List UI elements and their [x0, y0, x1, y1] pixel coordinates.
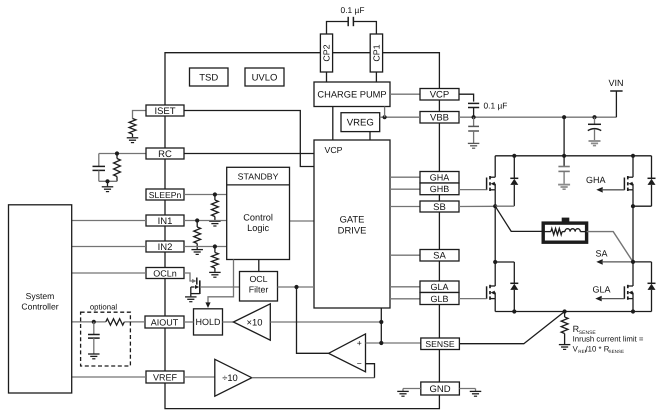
- svg-text:CP2: CP2: [322, 44, 332, 61]
- node OCL comparator tap: [294, 285, 298, 289]
- wire CP2 to charge pump: [326, 72, 328, 82]
- node phase A diode: [631, 204, 635, 208]
- svg-text:Controller: Controller: [21, 302, 58, 312]
- pin box SA: [420, 250, 459, 262]
- wire controller to IN1: [72, 220, 146, 222]
- transistor Q-GHB high side B: [487, 176, 496, 191]
- diode D1 high B: [510, 156, 518, 206]
- ground VIN bulk cap: [589, 141, 601, 146]
- diode D2 low B: [510, 262, 518, 312]
- wire RC bottom: [99, 180, 117, 182]
- wire right rail to bottom: [632, 299, 634, 312]
- node RC ground junction: [105, 179, 109, 183]
- block TSD: [190, 68, 229, 86]
- wire ISET-top to VCP-top: [165, 53, 439, 105]
- label VIN: [608, 78, 623, 88]
- svg-text:Inrush current limit =: Inrush current limit =: [573, 334, 644, 343]
- svg-text:VCP: VCP: [324, 145, 342, 155]
- ground optional cap: [88, 354, 100, 359]
- svg-text:GHA: GHA: [586, 175, 606, 185]
- resistor R-IN2: [211, 247, 218, 272]
- wire bridge top rail: [495, 155, 651, 157]
- ground GND right: [470, 389, 482, 397]
- wire GLA gate arrow: [595, 296, 624, 302]
- pin box RC: [146, 148, 184, 160]
- capacitor bridge bypass: [558, 156, 569, 184]
- wire phase B to diode: [495, 205, 514, 207]
- svg-text:SLEEPn: SLEEPn: [149, 190, 182, 200]
- svg-text:HOLD: HOLD: [195, 317, 221, 327]
- wire div10 output: [252, 377, 375, 379]
- wire left rail to phase: [494, 190, 496, 206]
- svg-text:ISET: ISET: [154, 106, 175, 117]
- op-amp div10: [215, 359, 252, 396]
- pin box GND: [421, 382, 460, 395]
- pin box IN2: [146, 241, 184, 253]
- node RC junction: [115, 151, 119, 155]
- diode D3 high A: [648, 156, 656, 206]
- pin box OCLn: [146, 268, 184, 279]
- block UVLO: [245, 68, 284, 86]
- svg-text:CHARGE PUMP: CHARGE PUMP: [317, 90, 386, 100]
- ground SLEEPn resistor: [209, 221, 221, 226]
- svg-text:−: −: [357, 359, 362, 369]
- wire controller to VREF: [72, 376, 146, 378]
- ground GND left: [397, 389, 409, 397]
- transistor Q-OCL: [191, 278, 200, 297]
- pin box VREF: [146, 371, 184, 383]
- resistor R-SLEEPn: [211, 195, 218, 221]
- svg-text:/10 * R: /10 * R: [586, 344, 610, 353]
- svg-text:×10: ×10: [247, 316, 263, 327]
- block VREG: [341, 113, 380, 132]
- node IN2 pulldown: [213, 244, 217, 248]
- node top rail left diode: [512, 154, 516, 158]
- node IN1 pulldown: [195, 218, 199, 222]
- wire GHA gate arrow: [596, 187, 624, 193]
- wire gate drive to GLA: [390, 286, 420, 288]
- wire left rail mid: [494, 206, 496, 262]
- label 0.1 uF pump: [341, 5, 365, 15]
- transistor Q-GLA low side A: [624, 285, 633, 300]
- wire VBB to bridge top rail: [563, 117, 565, 156]
- capacitor VBB bypass: [468, 117, 479, 143]
- svg-text:OCL: OCL: [249, 274, 267, 284]
- wire motor to phase A: [587, 232, 633, 262]
- pin box SENSE: [421, 338, 460, 350]
- label inrush line1: [573, 334, 644, 343]
- svg-text:UVLO: UVLO: [252, 73, 278, 84]
- node left lower diode tap: [493, 260, 497, 264]
- ground IN2 resistor: [209, 272, 221, 277]
- svg-text:+: +: [357, 338, 362, 348]
- node SLEEPn pulldown: [213, 192, 217, 196]
- label optional: [90, 303, 118, 312]
- label GHA arrow: [586, 175, 606, 185]
- ground Q-OCL source: [185, 297, 197, 302]
- svg-text:AIOUT: AIOUT: [151, 318, 179, 328]
- block HOLD: [194, 309, 223, 335]
- transistor Q-GLB low side B: [487, 285, 496, 300]
- op-amp x10: [233, 304, 270, 340]
- node charge pump VBB tap: [383, 107, 387, 120]
- pin box GHA: [420, 172, 459, 184]
- capacitor VIN bulk: [588, 117, 601, 140]
- wire gate drive to GLB: [390, 298, 420, 300]
- svg-text:IN1: IN1: [158, 216, 173, 227]
- wire feedback to comparator minus: [366, 364, 375, 378]
- svg-text:GLA: GLA: [593, 285, 611, 295]
- resistor R-SENSE: [561, 312, 568, 345]
- wire VREF to div10: [184, 376, 215, 378]
- wire charge pump to VCP: [390, 93, 420, 95]
- pin box SLEEPn: [146, 189, 184, 200]
- svg-text:GHB: GHB: [430, 184, 450, 194]
- wire gate drive to SB: [390, 206, 420, 208]
- svg-text:SENSE: SENSE: [425, 339, 454, 349]
- pin box CP2: [320, 34, 332, 72]
- pin box VCP: [420, 89, 459, 101]
- ground VBB bypass: [468, 143, 480, 148]
- svg-text:GHA: GHA: [430, 172, 450, 182]
- wire SENSE to bridge: [459, 312, 564, 344]
- wire right rail lower: [632, 262, 634, 286]
- pin box GHB: [420, 183, 459, 195]
- svg-text:DRIVE: DRIVE: [338, 225, 367, 236]
- wire RC to GATE DRIVE: [184, 153, 314, 155]
- svg-text:STANDBY: STANDBY: [238, 172, 279, 182]
- capacitor C-optional: [88, 322, 100, 354]
- svg-text:OCLn: OCLn: [153, 269, 177, 279]
- pin box SB: [420, 201, 459, 213]
- pin box IN1: [146, 215, 184, 227]
- svg-text:SA: SA: [596, 248, 608, 258]
- node phase A: [631, 260, 635, 264]
- wire GHB gate: [459, 189, 487, 191]
- wire OCLn to FET gate: [184, 273, 196, 283]
- wire GND left stub: [403, 388, 421, 390]
- label R-SENSE: [573, 324, 597, 336]
- node comparator sense junction: [379, 341, 383, 345]
- pin box GLA: [420, 281, 459, 293]
- wire Q-OCL drain to OCL filter: [200, 286, 240, 288]
- wire phase B to motor: [495, 206, 543, 231]
- wire SA arrow: [596, 259, 633, 265]
- resistor R-ISET: [129, 119, 136, 138]
- node VBB drop: [562, 115, 566, 119]
- node bottom rail left diode: [512, 309, 516, 313]
- wire left rail lower: [494, 262, 496, 286]
- wire OCL filter to gate drive: [278, 286, 315, 288]
- node bottom rail right: [631, 309, 635, 313]
- block CHARGE PUMP: [314, 82, 390, 107]
- wire left rail upper: [494, 156, 496, 177]
- svg-text:VREF: VREF: [153, 373, 178, 383]
- resistor R-RC: [114, 154, 121, 182]
- terminal VIN: [610, 91, 622, 117]
- wire gate drive sense tap: [380, 308, 382, 343]
- svg-text:VREG: VREG: [347, 118, 374, 129]
- svg-text:0.1 µF: 0.1 µF: [484, 101, 508, 111]
- svg-text:System: System: [26, 291, 55, 301]
- wire ISET to GATE DRIVE: [184, 111, 314, 167]
- label inrush line2: [573, 344, 624, 354]
- pin box VBB: [420, 112, 459, 124]
- wire VREG to VBB: [380, 116, 420, 118]
- wire GLB gate: [459, 298, 487, 300]
- wire HOLD to x10: [223, 321, 234, 323]
- svg-text:TSD: TSD: [199, 73, 218, 84]
- motor winding: [543, 218, 586, 243]
- wire bottom IC rail: [165, 383, 439, 409]
- wire lower diode B branch: [495, 261, 514, 263]
- svg-text:Filter: Filter: [249, 285, 269, 295]
- svg-text:Logic: Logic: [247, 223, 269, 233]
- node VIN bulk cap junction: [592, 115, 596, 119]
- wire IN1 to control logic: [184, 220, 227, 222]
- svg-text:VCP: VCP: [430, 89, 450, 100]
- transistor Q-GHA high side A: [624, 176, 633, 191]
- pin box ISET: [146, 105, 184, 117]
- wire control logic to OCL filter: [258, 260, 260, 272]
- wire right rail mid: [632, 206, 634, 262]
- wire left pin column verticals: [164, 116, 166, 371]
- wire ISET external: [133, 111, 147, 119]
- svg-text:VIN: VIN: [608, 78, 623, 88]
- block OCL Filter: [240, 272, 278, 302]
- ground R-SENSE: [559, 345, 571, 350]
- ground RC network: [102, 181, 114, 191]
- svg-text:GLB: GLB: [430, 294, 448, 304]
- svg-text:SENSE: SENSE: [609, 349, 625, 354]
- block GATE DRIVE: [314, 140, 390, 308]
- box optional dashed: [81, 312, 131, 366]
- wire AIOUT row: [72, 321, 145, 323]
- wire GND right stub: [459, 388, 475, 390]
- wire gate drive to GHA: [390, 176, 420, 178]
- wire gate drive to GHB: [390, 188, 420, 190]
- wire controller to OCLn: [72, 272, 146, 274]
- wire comparator plus to SENSE: [366, 342, 421, 344]
- wire bridge bottom rail: [495, 311, 651, 313]
- svg-text:0.1 µF: 0.1 µF: [341, 5, 365, 15]
- svg-text:IN2: IN2: [158, 242, 173, 253]
- label 0.1 uF VCP: [484, 101, 508, 111]
- wire phase A diode link: [633, 205, 652, 207]
- wire controller to IN2: [72, 246, 146, 248]
- wire SLEEPn to control logic: [184, 194, 227, 196]
- label SA arrow: [596, 248, 608, 258]
- svg-text:GLA: GLA: [430, 282, 448, 292]
- node top rail right: [631, 154, 635, 158]
- wire SB to phase node: [459, 205, 495, 207]
- resistor R-optional: [106, 319, 124, 325]
- capacitor 0.1uF pump: [327, 17, 377, 34]
- node VBB decoupling junction: [472, 115, 476, 119]
- resistor R-IN1: [194, 221, 201, 250]
- svg-text:GATE: GATE: [340, 214, 365, 225]
- block System Controller: [9, 205, 72, 393]
- svg-text:GND: GND: [429, 384, 450, 395]
- label GLA arrow: [593, 285, 611, 295]
- diode D4 low A: [648, 262, 656, 312]
- wire IN2 to control logic: [184, 246, 227, 248]
- svg-text:CP1: CP1: [371, 44, 381, 61]
- wire charge pump to gate drive: [332, 107, 334, 141]
- block STANDBY / Control Logic: [227, 167, 290, 259]
- wire CP1 to charge pump: [375, 72, 377, 82]
- svg-text:RC: RC: [158, 149, 172, 160]
- wire RC external: [99, 153, 146, 155]
- wire comparator output: [297, 287, 329, 353]
- wire right rail upper: [632, 156, 634, 177]
- ground ISET resistor: [127, 138, 139, 143]
- svg-text:VBB: VBB: [430, 112, 449, 123]
- wire AIOUT to HOLD: [184, 321, 194, 323]
- op-amp comparator: [329, 334, 366, 372]
- wire left rail to bottom: [494, 299, 496, 312]
- wire VBB rail right: [459, 116, 616, 118]
- wire x10 output: [270, 321, 381, 323]
- svg-text:÷10: ÷10: [222, 372, 238, 383]
- node bottom rail sense: [563, 309, 567, 313]
- ground IN1 resistor: [191, 250, 203, 255]
- pin box CP1: [370, 34, 382, 72]
- pin box GLB: [420, 293, 459, 305]
- node top rail center: [562, 154, 566, 158]
- node x10 sense junction: [379, 320, 383, 324]
- node optional cap junction: [92, 320, 96, 324]
- svg-text:SB: SB: [433, 202, 446, 213]
- wire lower diode A branch: [633, 261, 652, 263]
- svg-text:optional: optional: [90, 303, 118, 312]
- ground bridge bypass: [558, 185, 570, 190]
- wire right pin column verticals: [438, 100, 440, 382]
- wire VREG to gate drive: [369, 132, 371, 140]
- wire gate drive to SA: [390, 254, 420, 256]
- pin box AIOUT: [145, 316, 184, 328]
- node phase B: [493, 204, 497, 208]
- capacitor 0.1uF VCP-VBB: [459, 94, 479, 117]
- wire control logic to gate drive: [290, 220, 315, 222]
- wire control logic to HOLD arrow: [205, 260, 233, 309]
- svg-text:SA: SA: [433, 251, 446, 262]
- svg-text:Control: Control: [243, 213, 273, 223]
- wire right rail to phase: [632, 190, 634, 206]
- capacitor C-RC: [93, 154, 106, 182]
